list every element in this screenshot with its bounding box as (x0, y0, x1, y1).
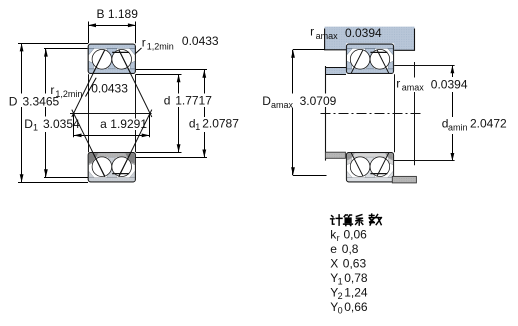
bearing top section (88, 44, 135, 74)
svg-text:X: X (330, 257, 338, 271)
dimension d1 extension lines (136, 69, 207, 71)
svg-text:2.0472: 2.0472 (470, 117, 507, 131)
dimension d label (163, 94, 210, 107)
svg-text:a: a (100, 117, 107, 131)
svg-text:1,2min: 1,2min (147, 42, 174, 52)
shaft right shoulder surface (394, 65, 454, 67)
dimension a line (74, 135, 150, 137)
svg-text:1: 1 (338, 277, 343, 287)
svg-text:1: 1 (195, 122, 200, 132)
r amax right label (395, 78, 425, 93)
axis segment between pressure centers (70, 113, 152, 115)
svg-text:0.0394: 0.0394 (431, 77, 468, 91)
dimension Damax extension lines (293, 49, 325, 51)
svg-text:d: d (164, 94, 171, 108)
dimension B line (88, 25, 136, 27)
svg-text:1,24: 1,24 (344, 286, 368, 300)
housing shoulder edges (325, 29, 415, 51)
bore line left (88, 74, 90, 152)
svg-text:r: r (50, 83, 54, 97)
dimension a label (97, 119, 145, 131)
svg-text:D: D (262, 94, 271, 108)
dimension d1 line (204, 70, 206, 94)
dimension D extension lines (18, 43, 88, 45)
svg-text:r: r (310, 25, 314, 39)
svg-text:0,06: 0,06 (344, 228, 368, 242)
svg-text:3.0709: 3.0709 (300, 94, 337, 108)
contact line top-left (72, 50, 105, 117)
dimension Damax label (297, 94, 336, 108)
dimension D1 line (45, 49, 47, 94)
svg-text:amax: amax (316, 31, 339, 41)
bore lines right drawing (394, 74, 396, 152)
dimension d line (178, 74, 180, 93)
axis centerline (321, 113, 421, 115)
contact line top-right (119, 50, 152, 117)
svg-text:D: D (24, 117, 33, 131)
shaft right shoulder face (414, 62, 416, 165)
dimension d extension lines (136, 74, 182, 76)
svg-text:0,63: 0,63 (343, 257, 367, 271)
dimension B extension lines (88, 22, 90, 44)
dimension D1 label (24, 117, 79, 131)
svg-text:r: r (337, 233, 340, 243)
svg-text:B 1.189: B 1.189 (97, 7, 139, 21)
svg-text:1.9291: 1.9291 (110, 117, 147, 131)
svg-text:0,66: 0,66 (344, 300, 368, 314)
svg-text:0,8: 0,8 (342, 242, 359, 256)
svg-text:amax: amax (271, 100, 294, 110)
svg-text:1,2min: 1,2min (55, 89, 82, 99)
dimension Damax line (292, 50, 294, 94)
svg-text:r: r (142, 36, 146, 50)
svg-text:0.0394: 0.0394 (345, 26, 382, 40)
svg-text:2.0787: 2.0787 (202, 117, 239, 131)
svg-text:1: 1 (33, 123, 38, 133)
svg-text:D: D (9, 94, 18, 108)
shaft shoulder left tab (325, 68, 346, 75)
bore line right (135, 74, 137, 152)
shaft lower shoulder surface (393, 160, 455, 162)
shaft end face (325, 66, 327, 161)
r mid leader (86, 78, 97, 97)
svg-text:3.0354: 3.0354 (43, 117, 80, 131)
dimension damin label (438, 117, 512, 134)
contact line bottom-right (119, 110, 152, 177)
svg-text:0: 0 (338, 306, 343, 316)
dimension d1 label (188, 118, 241, 131)
svg-text:r: r (396, 77, 400, 91)
svg-text:2: 2 (338, 291, 343, 301)
svg-text:1.7717: 1.7717 (175, 94, 212, 108)
lower housing abutment gray tab (392, 176, 416, 183)
dimension D1 extension lines (44, 48, 88, 50)
dimension damin line (452, 65, 454, 77)
dimension a extension verticals (73, 113, 75, 137)
svg-text:e: e (330, 242, 337, 256)
lower shaft abutment gray tab (325, 152, 345, 158)
mounted bearing top section (346, 44, 393, 74)
svg-text:0,78: 0,78 (344, 271, 368, 285)
r top leader (136, 48, 142, 54)
housing block (325, 27, 415, 51)
bearing bottom mirrored section (88, 152, 135, 182)
svg-text:0.0433: 0.0433 (91, 82, 128, 96)
mounted bearing bottom section (346, 152, 393, 182)
contact line bottom-left (72, 110, 105, 177)
svg-text:amax: amax (402, 83, 425, 93)
svg-text:amin: amin (448, 123, 468, 133)
table heading 计算系数 (drawn strokes) (331, 214, 382, 226)
dimension D line (21, 43, 23, 93)
svg-text:0.0433: 0.0433 (182, 34, 219, 48)
